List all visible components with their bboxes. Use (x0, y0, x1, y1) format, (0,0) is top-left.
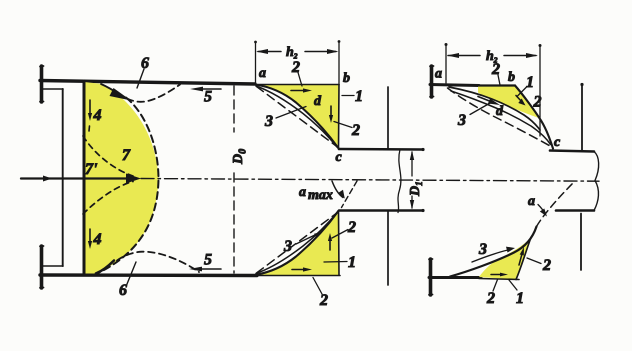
nozzle bottom yellow zone (255, 211, 339, 275)
svg-text:3: 3 (478, 241, 487, 258)
streamline upper dash link (88, 126, 91, 131)
h2 extension left right-fig (445, 45, 447, 83)
chord dashed top (257, 87, 338, 148)
svg-text:c: c (336, 150, 343, 165)
svg-text:3: 3 (457, 112, 466, 129)
svg-text:1: 1 (516, 290, 524, 307)
jet band arrow (478, 97, 492, 103)
arrows in yellow bottom right-fig (519, 252, 523, 265)
curve b-c right (515, 86, 553, 149)
vortex boundary solid segment top (101, 84, 122, 96)
arrow 5 top (196, 88, 221, 90)
svg-text:max: max (308, 188, 333, 203)
profile curve 2 top (256, 86, 337, 147)
inlet arrowhead large (126, 174, 141, 184)
svg-text:1: 1 (348, 254, 356, 271)
line b-c bottom (338, 211, 341, 276)
svg-text:7': 7' (85, 161, 98, 178)
jet curve bottom right-fig (450, 227, 537, 277)
centerline (141, 179, 599, 182)
streamline lower (83, 182, 133, 215)
arrow 4 top (89, 100, 91, 115)
pipe top wall right-fig (550, 151, 594, 152)
leader 6 bottom (127, 262, 136, 284)
svg-text:6: 6 (119, 282, 127, 299)
thin wall under yellow (479, 279, 519, 280)
arrow 5 bottom (195, 268, 221, 270)
pipe bottom wall (339, 209, 423, 212)
svg-text:6: 6 (141, 55, 149, 72)
baffle plate (83, 81, 86, 275)
lower right wall (580, 214, 582, 271)
svg-text:1: 1 (355, 88, 363, 105)
svg-text:5: 5 (204, 252, 212, 269)
dimension line h2 right-fig (448, 55, 536, 57)
upper right wall (581, 85, 583, 151)
dimension h2 extension left (255, 42, 257, 83)
circulation arrow right (291, 90, 305, 92)
svg-text:c: c (554, 135, 561, 150)
svg-text:a: a (528, 194, 535, 209)
profile curve 1 top (255, 85, 338, 149)
right detail yellow bottom (479, 238, 531, 280)
svg-text:2: 2 (351, 122, 360, 139)
vortex boundary arrowhead top (110, 88, 132, 101)
leader 6 top (137, 69, 144, 88)
h2 extension right right-fig (539, 46, 541, 136)
chamber bottom wall (40, 273, 257, 277)
svg-text:a: a (259, 66, 266, 81)
svg-text:b: b (343, 71, 350, 86)
curve 2 right (451, 91, 551, 145)
right figure flange top (430, 66, 434, 97)
svg-text:a: a (299, 185, 306, 200)
pipe break bracket right-fig (594, 152, 599, 211)
wall below pipe (387, 211, 389, 285)
vortex zone 7 yellow fill (84, 82, 159, 274)
pipe bottom wall right-fig (556, 209, 594, 212)
eddy arc 6 top (127, 85, 180, 102)
eddy arc 6 bottom (117, 252, 199, 272)
circulation arrow up bottom (329, 239, 331, 250)
chamber top wall (40, 81, 255, 85)
svg-text:3: 3 (283, 238, 292, 255)
curve 1 right (449, 87, 540, 130)
vortex boundary solid segment bottom (96, 261, 114, 274)
line a-b right (478, 84, 515, 86)
svg-text:1: 1 (526, 74, 534, 91)
right figure top wall (430, 85, 479, 86)
svg-text:2: 2 (486, 290, 495, 307)
svg-text:7: 7 (122, 147, 131, 164)
inner line top (41, 88, 63, 90)
inner line bottom (41, 265, 63, 267)
angle amax arc (332, 181, 343, 198)
right figure flange bottom (429, 259, 433, 295)
svg-text:d: d (314, 94, 322, 109)
inlet arrowhead small (43, 176, 52, 182)
svg-text:3: 3 (264, 113, 273, 130)
svg-text:5: 5 (204, 89, 212, 106)
svg-text:2: 2 (533, 94, 542, 111)
arrow 4 bottom (89, 229, 91, 242)
vortex boundary dashed arc (97, 98, 159, 274)
inlet flow arrow (21, 177, 133, 179)
pipe top wall (339, 148, 423, 151)
profile curve 1 bottom (255, 211, 338, 275)
svg-text:4: 4 (93, 231, 102, 248)
line b-c (338, 85, 341, 149)
circulation arrow down (330, 106, 332, 117)
dimension D1 (411, 152, 413, 208)
wall above pipe (387, 87, 389, 149)
svg-text:a: a (435, 67, 442, 82)
flange top-left (40, 66, 44, 102)
dimension h2 extension right (338, 42, 340, 85)
svg-text:b: b (508, 70, 515, 85)
profile curve 2 bottom (256, 213, 337, 274)
svg-text:d: d (496, 104, 504, 119)
circulation arrow right bottom (292, 269, 305, 271)
small arrow in yellow right (516, 96, 522, 103)
flange bottom-left (40, 246, 44, 288)
chord dashed bottom (257, 213, 338, 274)
right detail yellow top (478, 86, 540, 119)
svg-text:2: 2 (347, 219, 356, 236)
jet dashed extension (537, 181, 576, 227)
left end wall (62, 89, 64, 266)
right figure bottom wall (429, 276, 481, 279)
yellow right edge bottom (516, 238, 531, 280)
svg-text:4: 4 (93, 107, 102, 124)
streamline upper (83, 136, 133, 176)
dimension line D0 (233, 86, 235, 273)
svg-text:2: 2 (319, 292, 328, 309)
angle amax dashed line (342, 181, 358, 208)
chord dashed right (448, 88, 552, 147)
nozzle top yellow zone (255, 85, 339, 149)
pipe break wavy (398, 150, 401, 213)
line a-b bottom (255, 275, 340, 277)
line a-b (255, 84, 339, 86)
svg-text:2: 2 (542, 257, 551, 274)
dimension line h2 (258, 51, 336, 53)
